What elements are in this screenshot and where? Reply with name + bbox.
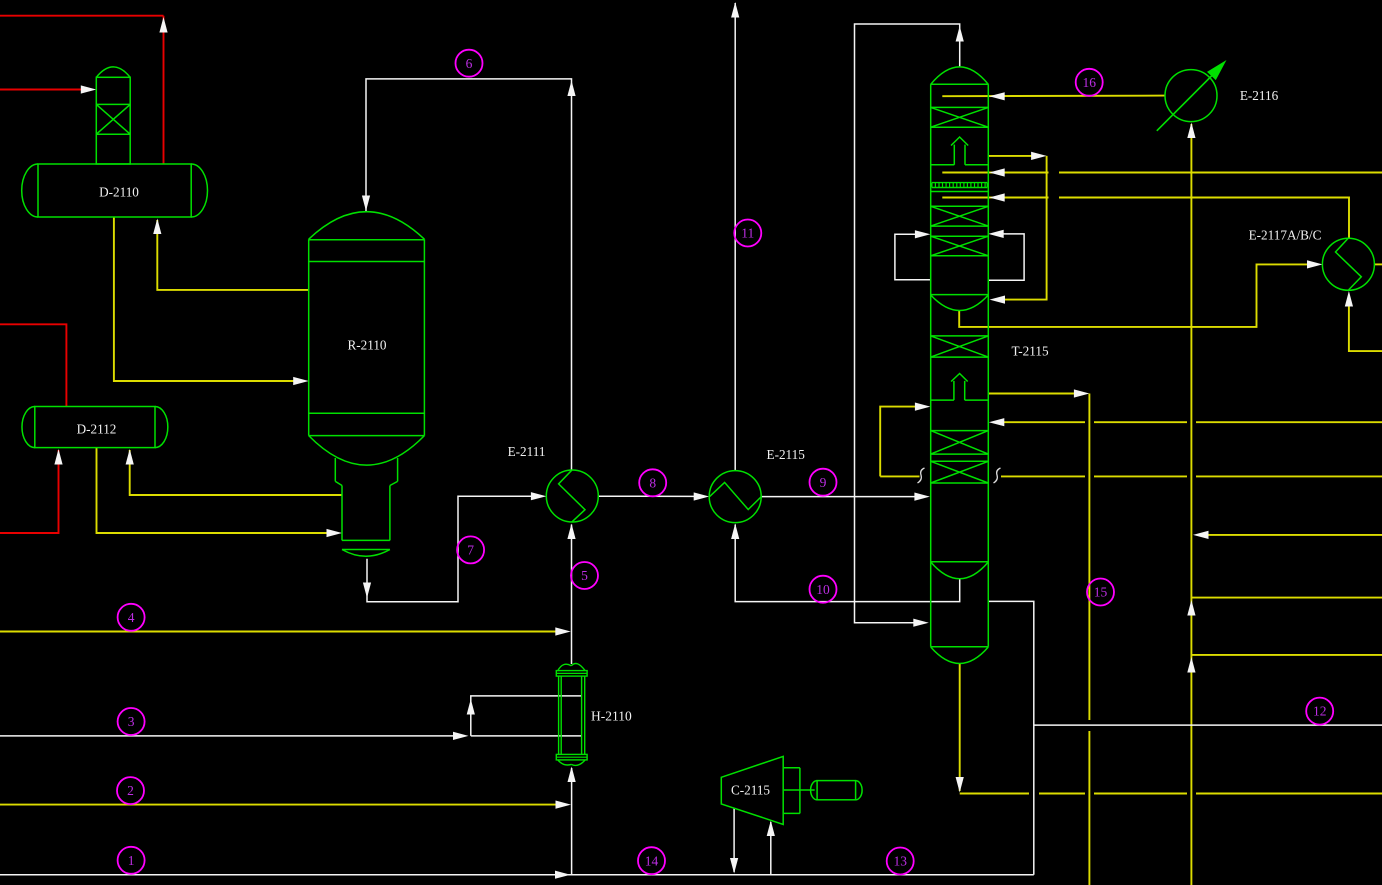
label E-2116 bbox=[1240, 88, 1279, 103]
wire T-2115 side draw loop bbox=[989, 152, 1047, 304]
wire E-2111 to E-2115 (stream 8) bbox=[599, 492, 710, 500]
label E-2115 bbox=[767, 447, 806, 462]
svg-text:5: 5 bbox=[581, 568, 588, 583]
wire D-2110 bottoms to R-2110 bbox=[114, 217, 309, 385]
node stream 7 bbox=[457, 536, 484, 563]
svg-text:7: 7 bbox=[467, 543, 474, 558]
wire T-2115 bottoms line bbox=[956, 664, 1382, 794]
svg-text:15: 15 bbox=[1094, 585, 1108, 600]
wire C-2115 discharge (stream 14) bbox=[730, 808, 738, 873]
wire supply line y534 into vertical bbox=[1193, 531, 1382, 539]
wire C-2115 suction (stream 13) bbox=[767, 821, 775, 875]
wire branch line y654 bbox=[1191, 654, 1382, 656]
wire feed line y172 into T-2115 bbox=[942, 168, 1382, 176]
wire E-2117 outlet right bbox=[1375, 263, 1382, 265]
svg-text:6: 6 bbox=[466, 56, 473, 71]
wire stream 2 feed line bbox=[0, 801, 571, 809]
wire E-2111 to H-2110 vertical (stream 5) bbox=[567, 524, 575, 665]
exchanger E-2115 bbox=[709, 471, 761, 523]
label C-2115 bbox=[731, 783, 770, 798]
node stream 15 bbox=[1087, 579, 1114, 606]
wire left heater loop on T-2115 bbox=[895, 230, 931, 280]
vessel D-2112 bbox=[22, 407, 168, 448]
wire line from R-2110 neck to D-2112 bbox=[126, 449, 342, 495]
svg-text:1: 1 bbox=[128, 853, 135, 868]
svg-text:8: 8 bbox=[649, 475, 656, 490]
label D-2110 bbox=[99, 185, 139, 200]
node stream 5 bbox=[571, 562, 598, 589]
node stream 1 bbox=[118, 847, 145, 874]
vessel D-2110 bbox=[22, 164, 208, 217]
node stream 8 bbox=[639, 469, 666, 496]
svg-text:T-2115: T-2115 bbox=[1011, 344, 1049, 359]
wire R-2110 bottoms to E-2111 bbox=[363, 492, 547, 602]
node stream 16 bbox=[1076, 69, 1103, 96]
label T-2115 bbox=[1011, 344, 1049, 359]
wire E-2116 cooling line vertical bbox=[1187, 123, 1195, 885]
line break squiggle left bbox=[918, 468, 925, 483]
wire E-2111 to R-2110 top (stream 6) bbox=[362, 79, 576, 470]
svg-text:14: 14 bbox=[645, 853, 659, 868]
wire T-2115 side draw to compressor bbox=[989, 601, 1034, 874]
wire E-2117 overhead return into T-2115 bbox=[942, 193, 1349, 238]
node stream 9 bbox=[810, 469, 837, 496]
svg-text:11: 11 bbox=[741, 226, 754, 241]
wire stream 3 line with jog bbox=[0, 696, 582, 740]
node stream 12 bbox=[1306, 698, 1333, 725]
wire E-2115 bottom circulation (stream 10) bbox=[731, 524, 960, 602]
label R-2110 bbox=[347, 338, 386, 353]
reactor R-2110 bbox=[309, 212, 425, 557]
svg-text:C-2115: C-2115 bbox=[731, 783, 770, 798]
wire red line to D-2112 top bbox=[0, 324, 66, 406]
cooler E-2116 bbox=[1157, 60, 1227, 131]
svg-text:D-2112: D-2112 bbox=[77, 422, 117, 437]
wire E-2115 to T-2115 (stream 9) bbox=[761, 493, 930, 501]
svg-text:4: 4 bbox=[128, 610, 135, 625]
wire stream 12 line bbox=[1034, 724, 1382, 726]
node stream 3 bbox=[118, 708, 145, 735]
wire feed into T-2115 at y422 bbox=[989, 418, 1382, 426]
svg-text:E-2111: E-2111 bbox=[508, 444, 546, 459]
wire H-2110 bottom feed bbox=[568, 767, 576, 875]
wire E-2115 overhead (stream 11) bbox=[731, 2, 739, 471]
exchanger E-2111 bbox=[546, 470, 598, 522]
wire E-2117 bottom supply bbox=[1345, 291, 1382, 351]
svg-text:10: 10 bbox=[816, 582, 830, 597]
label H-2110 bbox=[591, 709, 632, 724]
svg-text:9: 9 bbox=[820, 475, 827, 490]
node stream 2 bbox=[117, 777, 144, 804]
label E-2111 bbox=[508, 444, 546, 459]
wire reflux from E-2116 into T-2115 bbox=[942, 92, 1165, 100]
wire D-2112 bottoms to R-2110 neck bbox=[97, 448, 343, 537]
svg-text:D-2110: D-2110 bbox=[99, 185, 139, 200]
node stream 4 bbox=[118, 604, 145, 631]
node stream 6 bbox=[456, 50, 483, 77]
wire R-2110 side draw to D-2110 bbox=[153, 219, 309, 290]
column T-2115 bbox=[931, 67, 989, 664]
svg-text:E-2116: E-2116 bbox=[1240, 88, 1279, 103]
svg-text:16: 16 bbox=[1082, 75, 1096, 90]
svg-text:R-2110: R-2110 bbox=[347, 338, 386, 353]
line break squiggle right bbox=[994, 468, 1001, 483]
compressor C-2115 bbox=[721, 756, 862, 824]
svg-text:E-2115: E-2115 bbox=[767, 447, 806, 462]
wire red vent line to flare header bbox=[0, 16, 168, 164]
label D-2112 bbox=[77, 422, 117, 437]
wire branch line y597 bbox=[1191, 597, 1382, 599]
node stream 11 bbox=[734, 220, 761, 247]
column on D-2110 bbox=[96, 67, 130, 164]
label E-2117A/B/C bbox=[1249, 228, 1322, 243]
exchanger E-2117A/B/C bbox=[1322, 238, 1374, 290]
wire red feed line into D-2110 column bbox=[0, 85, 96, 93]
svg-text:12: 12 bbox=[1313, 704, 1327, 719]
filter H-2110 bbox=[556, 664, 587, 766]
wire red line into D-2112 bottom bbox=[0, 449, 63, 533]
svg-text:2: 2 bbox=[127, 783, 134, 798]
node stream 10 bbox=[810, 576, 837, 603]
node stream 14 bbox=[638, 847, 665, 874]
wire left pumparound into T-2115 bbox=[880, 403, 930, 477]
node stream 13 bbox=[887, 848, 914, 875]
wire right heater loop on T-2115 bbox=[988, 230, 1024, 280]
svg-text:3: 3 bbox=[128, 714, 135, 729]
wire T-2115 chimney draw to E-2117 bbox=[959, 260, 1322, 327]
svg-text:E-2117A/B/C: E-2117A/B/C bbox=[1249, 228, 1322, 243]
wire right pumparound supply bbox=[1001, 475, 1382, 477]
svg-text:H-2110: H-2110 bbox=[591, 709, 632, 724]
wire T-2115 overhead recycle loop bbox=[855, 24, 964, 627]
svg-text:13: 13 bbox=[893, 854, 907, 869]
wire stream 4 feed line bbox=[0, 627, 571, 635]
wire stream 15 draw line bbox=[989, 389, 1090, 885]
wire bottom header line (streams 1,14,13) bbox=[0, 871, 1034, 879]
